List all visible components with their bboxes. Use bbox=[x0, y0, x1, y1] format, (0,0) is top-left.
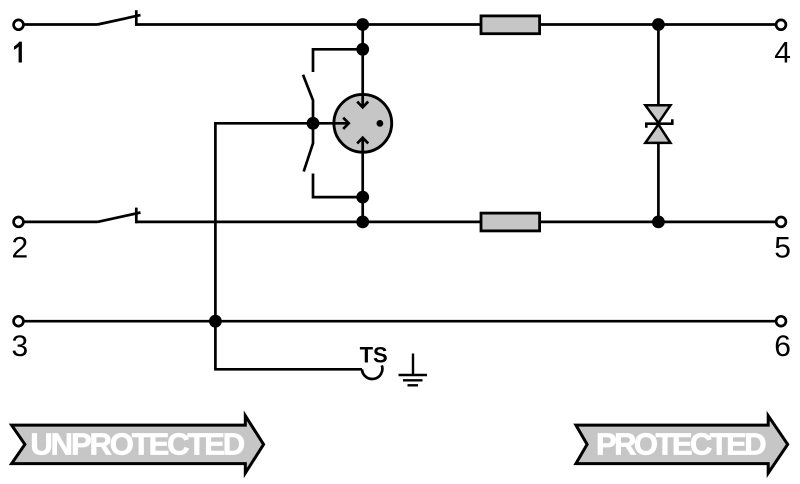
svg-text:4: 4 bbox=[774, 37, 791, 70]
svg-text:5: 5 bbox=[774, 231, 791, 264]
svg-text:3: 3 bbox=[12, 330, 29, 363]
svg-text:2: 2 bbox=[12, 231, 29, 264]
svg-text:TS: TS bbox=[360, 343, 388, 368]
svg-text:6: 6 bbox=[774, 330, 791, 363]
svg-text:UNPROTECTED: UNPROTECTED bbox=[30, 427, 245, 462]
svg-text:PROTECTED: PROTECTED bbox=[596, 427, 767, 462]
